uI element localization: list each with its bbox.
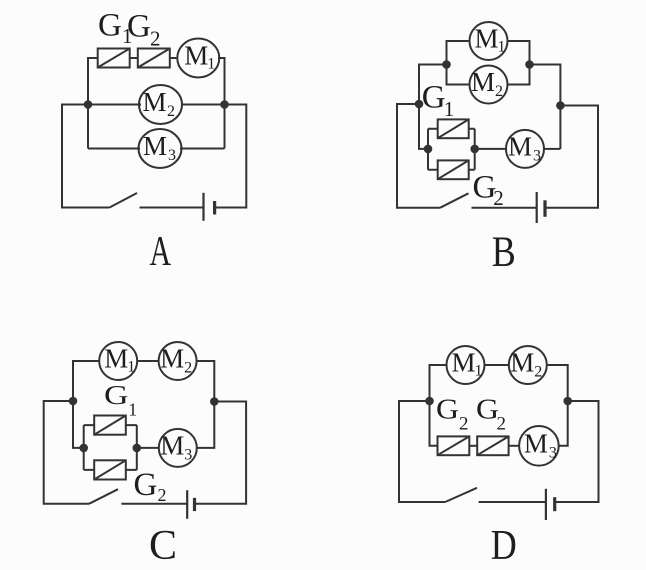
svg-text:3: 3 [533,147,541,164]
svg-text:G: G [127,8,151,44]
motor M1 (A) [177,39,219,78]
motor M3 (C) [159,429,197,467]
svg-text:3: 3 [168,147,176,164]
motor M3 (A) [139,129,182,168]
wire M1-M2 D [485,364,509,366]
junction dot B fuse-left [425,146,432,153]
motor M3 (D) [519,426,559,466]
wire M1/M2 left node B [447,41,470,85]
wire outer left A [62,105,110,208]
svg-text:1: 1 [207,56,215,73]
motor M1 (D) [447,346,485,384]
svg-text:M: M [160,344,184,374]
label G2 (C) [134,467,167,505]
wire outer left B [397,104,440,208]
junction dot A right [221,101,228,108]
svg-text:M: M [471,67,495,97]
svg-text:M: M [160,430,184,460]
wire top-left C [73,361,99,448]
svg-text:M: M [508,131,532,161]
svg-text:G: G [422,79,446,115]
wire box1-box2 D [469,445,477,447]
switch S (D) [445,488,477,502]
fuse G1 box (C) [94,416,126,435]
motor M2 (D) [509,346,547,384]
junction dot B mid-right [557,102,564,109]
wire box2-M3 D [509,445,519,447]
svg-text:2: 2 [534,364,542,381]
fuse G1 (A) [98,49,130,68]
wire M3 left (A) [88,148,140,150]
junction dot D right [564,398,571,405]
switch S (C) [89,489,118,504]
wire fuse branch right C [126,425,137,470]
svg-text:D: D [491,523,517,569]
label G2b (D) [476,395,506,435]
svg-text:2: 2 [167,103,175,120]
junction dot B upper-right [526,61,533,68]
wire M1/M2 right node B [508,41,530,85]
wire node to fuse branch B [419,65,447,149]
svg-text:2: 2 [495,83,503,100]
fuse G2a (D) [438,436,470,455]
wire fuse-M3 C [137,447,159,449]
wire upper-right down B [530,65,561,149]
svg-text:2: 2 [497,414,507,435]
svg-text:3: 3 [549,444,557,461]
svg-text:B: B [492,229,516,276]
motor M1 (B) [470,22,508,60]
svg-text:M: M [184,41,208,71]
svg-text:1: 1 [475,363,483,380]
svg-text:M: M [104,344,128,374]
svg-text:1: 1 [444,97,455,121]
wire M1-M2 C [137,360,158,362]
fuse G2 box (B) [438,160,469,179]
junction dot A left [85,101,92,108]
label G2 (B) [473,169,504,209]
svg-text:1: 1 [127,359,135,376]
wire fuse branch left B [428,129,438,170]
fuse G1 box (B) [438,119,469,138]
wire right inner vertical A [218,58,225,149]
label G1 (B) [422,79,455,121]
motor M2 (A) [139,85,182,124]
wire outer right D [555,401,599,502]
wire fuse branch right B [469,129,475,170]
svg-text:G: G [436,395,459,426]
svg-text:2: 2 [493,186,504,210]
motor M1 (C) [99,342,137,380]
battery B [537,192,545,223]
fuse G2b (D) [477,436,508,455]
wire switch-battery D [479,501,546,503]
svg-text:M: M [142,87,166,117]
fuse G2 box (C) [94,460,126,479]
svg-text:1: 1 [128,400,137,420]
junction dot B upper-left [443,61,450,68]
svg-text:C: C [149,523,177,569]
wire switch-battery C [121,503,187,505]
wire switch-battery A [140,207,204,209]
svg-text:M: M [510,348,534,378]
wire right inner vertical C [197,361,215,448]
wire M2 right (A) [181,104,225,106]
svg-text:2: 2 [184,360,192,377]
label G2 (A) [127,8,161,50]
motor M3 (B) [506,130,544,168]
wire outer left D [399,401,445,502]
svg-text:G: G [98,8,122,44]
wire G1-G2 (A) [130,57,138,59]
svg-text:G: G [104,380,129,410]
wire G2-M1 (A) [170,57,178,59]
wire top-left D [430,365,447,446]
motor M2 (C) [159,342,197,380]
motor M2 (B) [470,66,508,104]
switch S (A) [110,193,138,208]
junction dot B mid-left [416,101,423,108]
fuse G2 (A) [138,49,170,68]
svg-text:M: M [451,348,475,378]
junction dot C fuse-left [80,445,87,452]
svg-text:2: 2 [158,485,167,505]
svg-text:G: G [134,467,158,503]
svg-text:2: 2 [459,414,469,435]
svg-text:M: M [524,428,548,458]
label G2a (D) [436,395,469,435]
svg-text:M: M [143,131,167,161]
wire left inner vertical A [88,58,98,149]
junction dot C right [211,398,218,405]
battery D [546,489,555,520]
junction dot B fuse-right [471,146,478,153]
svg-text:2: 2 [150,27,161,51]
switch S (B) [440,193,469,208]
wire M3 right (A) [180,148,225,150]
wire outer right A [215,105,247,208]
svg-text:1: 1 [498,39,506,56]
wire M2 left (A) [88,104,141,106]
wire fuse branch left C [84,425,95,470]
battery A [204,193,215,221]
wire switch-battery B [472,207,537,209]
wire fuse-M3 B [475,148,506,150]
wire outer left C [44,401,89,504]
junction dot C fuse-right [134,445,141,452]
wire outer right C [195,402,247,504]
svg-text:A: A [150,229,172,275]
wire right inner vertical D [547,365,568,446]
wire M3 right B [545,148,561,150]
svg-text:3: 3 [184,446,192,463]
label G1 (A) [98,8,133,48]
label G1 (C) [104,380,137,420]
wire outer right B [545,106,598,208]
junction dot C left [70,398,77,405]
battery C [187,490,194,519]
junction dot D left [426,398,433,405]
svg-text:M: M [474,24,498,54]
